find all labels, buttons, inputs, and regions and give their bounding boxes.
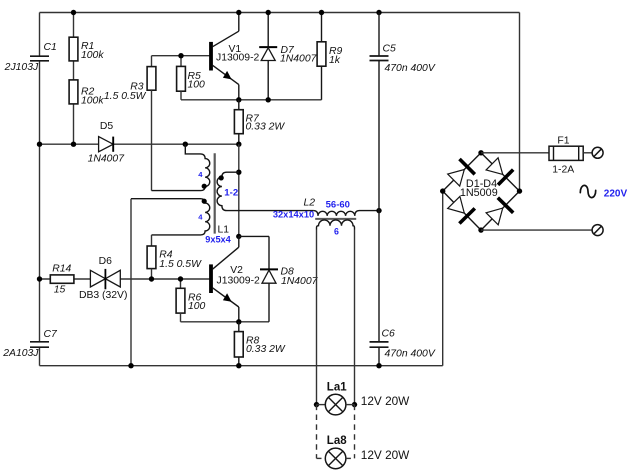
capacitor C7	[2, 329, 58, 359]
inductor L2 primary	[313, 211, 379, 216]
resistor R7	[234, 100, 285, 144]
svg-text:1.5 0.5W: 1.5 0.5W	[104, 91, 147, 102]
svg-text:15: 15	[54, 285, 66, 296]
node D5 line R2	[71, 142, 76, 147]
lamp La8	[317, 435, 411, 469]
wire fuse to terminal	[583, 152, 592, 154]
svg-text:J13009-2: J13009-2	[216, 53, 260, 64]
svg-text:C1: C1	[44, 42, 57, 53]
node L1 lower winding phase dot	[202, 199, 207, 204]
wire dashed left to La8	[316, 405, 318, 459]
transformer L1 core	[214, 153, 216, 233]
AC source symbol	[580, 185, 595, 197]
node base line R4	[149, 276, 154, 281]
svg-text:DB3 (32V): DB3 (32V)	[79, 290, 128, 301]
transistor V2	[210, 236, 260, 321]
wire dashed right to La8	[354, 405, 356, 459]
svg-text:L2: L2	[303, 197, 315, 208]
node D7 anode junction	[266, 97, 271, 102]
bridge frame	[443, 153, 520, 230]
diode D5	[88, 121, 126, 164]
svg-text:C7: C7	[44, 329, 59, 340]
wire left rail lower	[39, 347, 41, 365]
node V1 emitter junction	[236, 97, 241, 102]
wire bottom rail	[40, 365, 443, 367]
wire winding return drop	[130, 199, 132, 366]
node base line left rail	[37, 276, 42, 281]
svg-text:1N4007: 1N4007	[280, 53, 318, 64]
node center column winding tap	[236, 170, 241, 175]
wire R2 to D5 line	[73, 104, 75, 144]
node bottom rail R8	[236, 363, 241, 368]
inductor L2 core	[315, 218, 356, 220]
svg-text:0.33 2W: 0.33 2W	[246, 344, 286, 355]
svg-text:D5: D5	[100, 121, 114, 132]
svg-text:C6: C6	[382, 329, 396, 340]
svg-text:0.33 2W: 0.33 2W	[246, 122, 286, 133]
svg-text:1-2A: 1-2A	[552, 165, 574, 176]
svg-text:1N5009: 1N5009	[460, 187, 498, 199]
wire V2 emitter line	[181, 321, 270, 323]
node bottom rail C6	[376, 363, 381, 368]
svg-text:1-2: 1-2	[224, 188, 238, 199]
wire V1 base	[152, 55, 210, 57]
diode D1 (left-top edge)	[448, 159, 475, 186]
svg-text:2A103J: 2A103J	[2, 348, 39, 359]
svg-text:D6: D6	[99, 256, 113, 267]
svg-text:9x5x4: 9x5x4	[205, 235, 231, 245]
diode D3 (bottom-right edge)	[486, 198, 513, 225]
wire V2 base line	[40, 278, 210, 280]
svg-text:100: 100	[188, 79, 206, 90]
svg-text:56-60: 56-60	[326, 199, 350, 210]
lamp La1	[317, 382, 411, 415]
node V2 emitter junction	[236, 319, 241, 324]
node lamp left	[314, 402, 319, 407]
node V2 collector junction	[236, 234, 241, 239]
transformer L1 winding right 1-2	[217, 172, 313, 210]
wire left rail middle	[39, 61, 41, 342]
diode D2 (top-right edge)	[486, 158, 513, 185]
node top rail C5	[376, 10, 381, 15]
svg-text:1N4007: 1N4007	[88, 154, 126, 165]
node D5 line R7	[236, 142, 241, 147]
terminal upper	[592, 147, 603, 158]
node D5 line left rail	[37, 142, 42, 147]
wire center column below D5 line	[238, 144, 240, 236]
node base line R6	[178, 276, 183, 281]
svg-text:La1: La1	[327, 382, 347, 394]
node lamp right	[352, 402, 357, 407]
svg-text:R14: R14	[52, 263, 71, 274]
svg-text:100: 100	[188, 301, 206, 312]
node V1 base junction	[178, 53, 183, 58]
wire left rail upper	[39, 13, 41, 57]
svg-text:12V 20W: 12V 20W	[361, 394, 410, 408]
svg-text:1k: 1k	[329, 55, 341, 66]
wire D5 node line	[40, 143, 239, 145]
capacitor C6	[370, 211, 436, 366]
resistor R4	[147, 235, 202, 279]
resistor R9	[317, 13, 342, 100]
node bottom rail return	[128, 363, 133, 368]
inductor L2 secondary	[317, 220, 355, 230]
node top rail R9	[319, 10, 324, 15]
resistor R1	[69, 37, 104, 61]
resistor R2	[69, 80, 104, 107]
node L1 right winding phase dot	[219, 175, 224, 180]
terminal lower	[592, 225, 603, 236]
node L1 upper winding phase dot	[202, 184, 207, 189]
svg-text:100k: 100k	[81, 95, 104, 106]
wire R1R2 column	[73, 13, 75, 38]
node top rail V1 collector	[236, 10, 241, 15]
node L2 C5 junction	[376, 208, 381, 213]
transformer L1 winding lower-left	[131, 199, 210, 235]
node D5 line winding	[183, 142, 188, 147]
resistor R6	[176, 279, 205, 322]
wire lamp left drop	[316, 230, 318, 405]
diac D6	[79, 256, 128, 301]
svg-text:1.5 0.5W: 1.5 0.5W	[159, 259, 202, 270]
svg-text:J13009-2: J13009-2	[217, 275, 261, 286]
resistor R3	[104, 56, 156, 191]
transformer L1 winding upper-left	[152, 144, 210, 190]
wire right drop from top rail to bridge	[519, 13, 521, 192]
svg-text:32x14x10: 32x14x10	[273, 210, 314, 220]
svg-text:V2: V2	[230, 265, 243, 276]
svg-text:470n 400V: 470n 400V	[385, 348, 436, 359]
node bridge right	[517, 188, 522, 193]
svg-text:470n 400V: 470n 400V	[385, 63, 436, 74]
fuse F1	[549, 136, 583, 176]
wire V1 emitter line	[181, 99, 322, 101]
capacitor C5	[370, 13, 436, 211]
wire lamp right drop	[354, 230, 356, 405]
svg-text:C5: C5	[383, 44, 397, 55]
svg-text:220V: 220V	[604, 189, 628, 200]
resistor R8	[234, 322, 285, 366]
capacitor C1	[4, 42, 57, 73]
svg-text:6: 6	[334, 226, 339, 236]
svg-text:La8: La8	[327, 435, 347, 447]
resistor R14	[50, 263, 74, 295]
svg-text:2J103J: 2J103J	[4, 62, 39, 73]
svg-text:F1: F1	[557, 136, 569, 147]
wire top rail	[40, 12, 520, 14]
wire R1-R2 link	[73, 61, 75, 80]
transistor V1	[210, 13, 260, 100]
node bridge bottom	[478, 227, 483, 232]
svg-text:12V 20W: 12V 20W	[361, 448, 410, 462]
node top rail D7	[266, 10, 271, 15]
wire bridge bottom to terminal	[481, 229, 592, 231]
resistor R5	[177, 56, 205, 100]
svg-text:1N4007: 1N4007	[281, 276, 319, 287]
diode D7	[259, 13, 317, 100]
node top rail R1	[71, 10, 76, 15]
node bridge left	[440, 188, 445, 193]
diode D8	[239, 236, 319, 321]
node bridge top	[478, 150, 483, 155]
wire bridge top to fuse	[481, 152, 549, 154]
svg-text:100k: 100k	[81, 50, 104, 61]
diode D4 (left-bottom edge)	[448, 196, 475, 223]
wire bridge left corner drop	[442, 191, 444, 366]
